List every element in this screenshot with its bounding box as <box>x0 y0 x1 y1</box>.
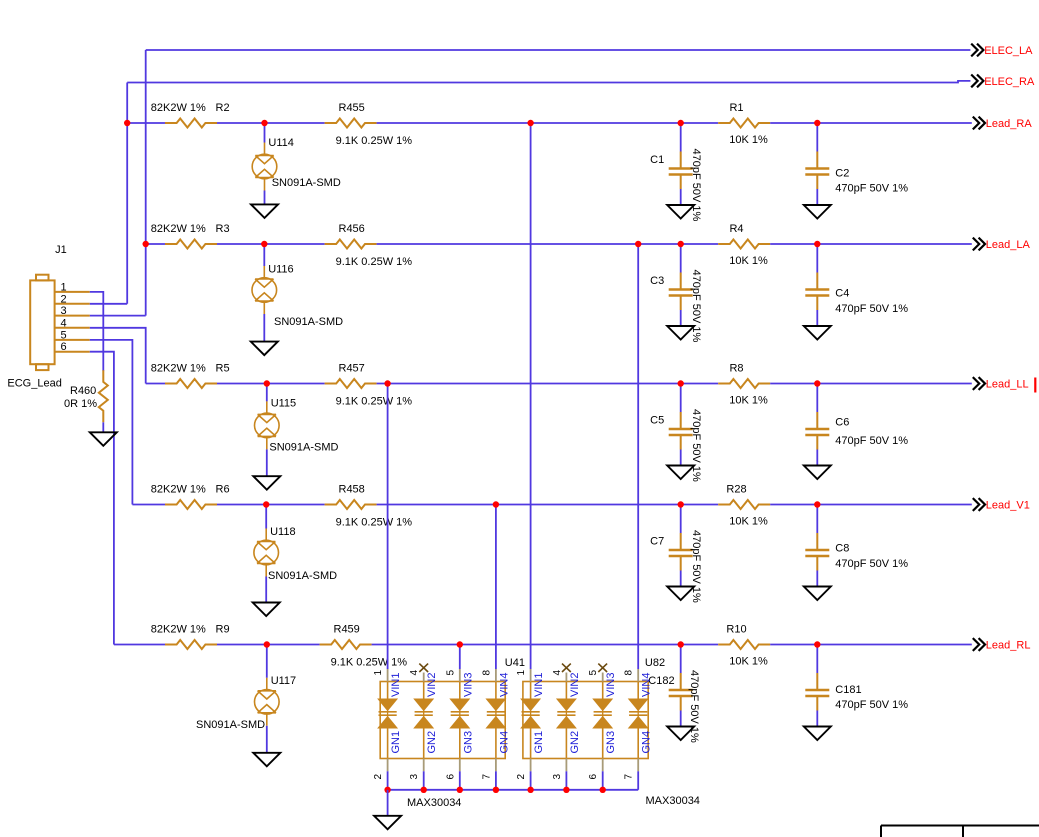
wire C1 branch upper <box>680 123 682 152</box>
TVS diode pair U82 channel 1 <box>522 699 540 728</box>
capacitor C6 470pF 50V 1% <box>805 412 829 450</box>
svg-text:R456: R456 <box>339 223 365 235</box>
U41 pin 8 internal lead <box>495 682 497 700</box>
svg-text:1: 1 <box>516 670 527 676</box>
svg-text:VIN2: VIN2 <box>569 673 581 697</box>
svg-text:R9: R9 <box>216 624 230 636</box>
U82 pin 5 internal lead <box>602 682 604 700</box>
wire C6 branch lower <box>816 450 818 466</box>
junction row 1 at x=127.2 <box>124 120 130 126</box>
wire C7 branch lower <box>680 571 682 587</box>
ground below R460 <box>90 432 117 446</box>
svg-text:5: 5 <box>61 329 67 341</box>
wire TVS ground rail <box>388 789 639 791</box>
U41 pin 2 stub <box>387 759 389 772</box>
wire row Lead_LA segment 2 <box>217 243 325 245</box>
svg-text:3: 3 <box>61 305 67 317</box>
U82 pin 4 internal lead <box>565 682 567 700</box>
svg-text:82K2W 1%: 82K2W 1% <box>151 624 206 636</box>
red net stub at right edge of Lead_LL <box>1034 378 1036 393</box>
wire ground rail to ground symbol <box>387 790 389 816</box>
svg-text:R460: R460 <box>70 385 96 397</box>
wire row Lead_RA segment 4 <box>770 122 972 124</box>
resistor R28 10K 1% <box>718 500 770 509</box>
wire bus ELEC_RA to J1 pin 2 <box>126 83 128 304</box>
wire R460 to ground <box>102 422 104 432</box>
junction ground rail at x=566.4 <box>563 787 569 793</box>
IC U41 MAX30034 body <box>380 682 505 759</box>
junction ground rail at x=387.6 <box>384 787 390 793</box>
connector J1 body <box>30 275 54 370</box>
svg-text:9.1K 0.25W 1%: 9.1K 0.25W 1% <box>331 657 408 669</box>
resistor R2 82K2W 1% <box>165 119 217 128</box>
wire net ELEC_LA horizontal <box>146 49 971 51</box>
port ELEC_LA <box>971 44 1033 58</box>
wire C7 branch upper <box>680 505 682 534</box>
U41 pin 1 internal lead <box>387 682 389 700</box>
svg-text:R457: R457 <box>339 363 365 375</box>
junction row 3 at x=387.6 <box>384 380 390 386</box>
svg-text:SN091A-SMD: SN091A-SMD <box>196 719 265 731</box>
svg-text:GN2: GN2 <box>569 731 581 754</box>
wire C4 branch lower <box>816 310 818 326</box>
wire row Lead_LL segment 3 <box>377 383 719 385</box>
no-connect X on U82 pin 4 <box>562 664 571 672</box>
capacitor C2 470pF 50V 1% <box>805 152 829 190</box>
port Lead_LA <box>973 238 1031 252</box>
resistor R460 0R 1% <box>99 370 108 422</box>
U82 pin 1 stub <box>530 669 532 682</box>
wire J1 pin 3 to ELEC_LA bus <box>90 315 146 317</box>
svg-text:R6: R6 <box>216 484 230 496</box>
junction row 5 at x=459.8 <box>457 641 463 647</box>
U41 pin 3 stub <box>423 759 425 772</box>
junction ground rail at x=602.7 <box>600 787 606 793</box>
svg-text:4: 4 <box>552 670 563 676</box>
svg-text:ELEC_LA: ELEC_LA <box>984 45 1033 57</box>
resistor R4 10K 1% <box>718 240 770 249</box>
wire J1 pin 6 down to Lead_RL row <box>90 352 114 645</box>
wire C3 branch upper <box>680 244 682 273</box>
junction ground rail at x=423.7 <box>421 787 427 793</box>
wire C5 branch upper <box>680 384 682 413</box>
svg-text:C8: C8 <box>835 543 849 555</box>
ground below C182 <box>667 727 694 741</box>
junction row 2 at x=638.2 <box>635 241 641 247</box>
svg-text:82K2W 1%: 82K2W 1% <box>151 363 206 375</box>
TVS diode pair U82 channel 2 <box>557 699 575 728</box>
junction row 4 at x=817.3 <box>814 501 820 507</box>
ground below U114 <box>251 204 278 218</box>
wire U118 to ground <box>265 577 267 603</box>
wire C3 branch lower <box>680 310 682 326</box>
svg-text:8: 8 <box>624 670 635 676</box>
svg-text:GN4: GN4 <box>498 731 510 754</box>
capacitor C8 470pF 50V 1% <box>805 533 829 571</box>
wire row Lead_V1 segment 2 <box>217 504 325 506</box>
svg-text:U41: U41 <box>505 657 525 669</box>
svg-text:10K 1%: 10K 1% <box>729 395 768 407</box>
svg-text:U115: U115 <box>271 398 296 410</box>
svg-text:82K2W 1%: 82K2W 1% <box>151 102 206 114</box>
svg-text:Lead_LA: Lead_LA <box>986 239 1031 251</box>
wire U82 pin 6 to ground rail <box>602 771 604 790</box>
svg-text:Lead_V1: Lead_V1 <box>986 500 1030 512</box>
TVS diode pair U41 channel 4 <box>487 699 505 728</box>
port Lead_V1 <box>973 498 1030 512</box>
ground below C7 <box>667 587 694 601</box>
U41 channel 4 internal lead lower <box>495 728 497 759</box>
junction row 2 at x=680.7 <box>678 241 684 247</box>
ground below C1 <box>667 205 694 219</box>
svg-text:2: 2 <box>61 293 67 305</box>
wire row Lead_LL segment 1 <box>146 383 166 385</box>
svg-text:470pF 50V 1%: 470pF 50V 1% <box>835 303 908 315</box>
U82 pin 6 stub <box>602 759 604 772</box>
svg-text:GN2: GN2 <box>426 731 438 754</box>
U82 channel 4 internal lead lower <box>637 728 639 759</box>
ground below C8 <box>804 587 831 601</box>
svg-text:5: 5 <box>588 670 599 676</box>
U41 channel 1 internal lead lower <box>387 728 389 759</box>
svg-text:VIN1: VIN1 <box>533 673 545 697</box>
junction row 5 at x=266.8 <box>264 641 270 647</box>
svg-text:5: 5 <box>445 670 456 676</box>
U82 pin 2 stub <box>530 759 532 772</box>
resistor R459 9.1K 0.25W 1% <box>320 640 372 649</box>
wire U115 branch from row junction <box>266 384 268 402</box>
svg-text:MAX30034: MAX30034 <box>646 795 700 807</box>
wire row Lead_RA segment 3 <box>377 122 719 124</box>
no-connect X on U41 pin 4 <box>419 664 428 672</box>
U41 pin 4 internal lead <box>423 682 425 700</box>
resistor R455 9.1K 0.25W 1% <box>325 119 377 128</box>
U41 pin 6 stub <box>459 759 461 772</box>
resistor R456 9.1K 0.25W 1% <box>325 240 377 249</box>
J1 pin 6 lead <box>55 351 90 353</box>
wire bus Lead_RA to U82 pin 1 <box>530 123 532 669</box>
wire U82 pin 7 to ground rail <box>637 771 639 790</box>
junction row 5 at x=680.7 <box>678 641 684 647</box>
U82 pin 4 stub <box>565 673 567 682</box>
wire bus Lead_V1 to U41 pin 8 <box>495 505 497 670</box>
wire C2 branch upper <box>816 123 818 152</box>
svg-text:U82: U82 <box>645 657 665 669</box>
svg-text:GN1: GN1 <box>390 731 402 754</box>
port ELEC_RA <box>971 75 1035 89</box>
svg-text:C5: C5 <box>650 415 664 427</box>
svg-text:C6: C6 <box>835 417 849 429</box>
svg-text:ELEC_RA: ELEC_RA <box>984 76 1035 88</box>
wire U82 pin 3 to ground rail <box>565 771 567 790</box>
U41 pin 4 stub <box>423 673 425 682</box>
wire U41 pin 7 to ground rail <box>495 771 497 790</box>
junction row 2 at x=145.7 <box>143 241 149 247</box>
svg-text:VIN4: VIN4 <box>641 673 653 697</box>
svg-text:470pF 50V 1%: 470pF 50V 1% <box>835 183 908 195</box>
svg-text:J1: J1 <box>55 244 67 256</box>
svg-text:SN091A-SMD: SN091A-SMD <box>272 177 341 189</box>
surge arrester U115 (SN091A-SMD) <box>254 401 279 449</box>
wire U118 branch from row junction <box>265 505 267 529</box>
capacitor C4 470pF 50V 1% <box>805 273 829 311</box>
wire U41 pin 6 to ground rail <box>459 771 461 790</box>
resistor R10 10K 1% <box>718 640 770 649</box>
wire U41 pin 3 to ground rail <box>423 771 425 790</box>
svg-text:10K 1%: 10K 1% <box>729 516 768 528</box>
svg-text:470pF 50V 1%: 470pF 50V 1% <box>690 270 702 343</box>
svg-text:C7: C7 <box>650 536 664 548</box>
wire C181 branch lower <box>816 711 818 727</box>
svg-text:2: 2 <box>516 774 527 780</box>
wire C182 branch upper <box>680 645 682 674</box>
junction row 5 at x=817.3 <box>814 641 820 647</box>
wire row Lead_RA segment 2 <box>217 122 325 124</box>
capacitor C3 470pF 50V 1% <box>669 273 693 311</box>
junction row 1 at x=530.6 <box>527 120 533 126</box>
wire row Lead_LA segment 4 <box>770 243 972 245</box>
svg-text:470pF 50V 1%: 470pF 50V 1% <box>835 435 908 447</box>
J1 pin 1 lead <box>55 291 90 293</box>
resistor R3 82K2W 1% <box>165 240 217 249</box>
svg-text:GN1: GN1 <box>533 731 545 754</box>
wire row Lead_V1 segment 4 <box>770 504 972 506</box>
svg-text:6: 6 <box>445 774 456 780</box>
ground below C5 <box>667 466 694 480</box>
U82 pin 7 stub <box>637 759 639 772</box>
svg-text:GN4: GN4 <box>641 731 653 754</box>
TVS diode pair U41 channel 3 <box>451 699 469 728</box>
svg-text:6: 6 <box>588 774 599 780</box>
svg-text:470pF 50V 1%: 470pF 50V 1% <box>690 149 702 222</box>
svg-text:3: 3 <box>409 774 420 780</box>
ground below C4 <box>804 326 831 340</box>
svg-text:7: 7 <box>624 774 635 780</box>
svg-text:470pF 50V 1%: 470pF 50V 1% <box>835 558 908 570</box>
wire U115 to ground <box>266 449 268 476</box>
ground below TVS rail <box>374 816 401 830</box>
wire net ELEC_RA horizontal with jog <box>127 81 970 83</box>
wire row Lead_LA segment 3 <box>377 243 719 245</box>
J1 pin 2 lead <box>55 303 90 305</box>
wire J1 pin 2 to ELEC_RA bus <box>90 303 127 305</box>
port Lead_RL <box>973 638 1031 652</box>
svg-text:SN091A-SMD: SN091A-SMD <box>274 316 343 328</box>
capacitor C5 470pF 50V 1% <box>669 412 693 450</box>
svg-text:R458: R458 <box>339 484 365 496</box>
svg-text:R455: R455 <box>339 102 365 114</box>
wire C8 branch lower <box>816 571 818 587</box>
svg-text:82K2W 1%: 82K2W 1% <box>151 223 206 235</box>
wire U116 to ground <box>263 314 265 342</box>
surge arrester U116 (SN091A-SMD) <box>252 266 277 314</box>
svg-text:U117: U117 <box>271 675 296 687</box>
svg-text:82K2W 1%: 82K2W 1% <box>151 484 206 496</box>
wire row Lead_RL segment 4 <box>770 644 972 646</box>
svg-text:3: 3 <box>552 774 563 780</box>
junction row 2 at x=817.3 <box>814 241 820 247</box>
U41 pin 5 internal lead <box>459 682 461 700</box>
svg-text:R3: R3 <box>216 223 230 235</box>
svg-text:9.1K 0.25W 1%: 9.1K 0.25W 1% <box>336 256 413 268</box>
junction row 4 at x=495.9 <box>493 501 499 507</box>
svg-text:MAX30034: MAX30034 <box>407 797 461 809</box>
svg-text:4: 4 <box>61 317 67 329</box>
surge arrester U117 (SN091A-SMD) <box>254 678 279 726</box>
U41 channel 3 internal lead lower <box>459 728 461 759</box>
capacitor C181 470pF 50V 1% <box>805 673 829 711</box>
wire C1 branch lower <box>680 189 682 205</box>
svg-text:4: 4 <box>409 670 420 676</box>
ground below C6 <box>804 466 831 480</box>
U41 pin 8 stub <box>495 669 497 682</box>
wire row Lead_LA segment 1 <box>146 243 166 245</box>
ground below U116 <box>251 342 278 356</box>
wire bus Lead_RL to U41 pin 5 <box>459 645 461 670</box>
resistor R457 9.1K 0.25W 1% <box>325 379 377 388</box>
wire row Lead_LL segment 2 <box>217 383 325 385</box>
port Lead_LL <box>973 377 1029 391</box>
no-connect X on U82 pin 5 <box>598 664 607 672</box>
svg-text:Lead_LL: Lead_LL <box>986 379 1029 391</box>
TVS diode pair U82 channel 4 <box>629 699 647 728</box>
capacitor C7 470pF 50V 1% <box>669 533 693 571</box>
wire bus Lead_LL to U41 pin 1 <box>387 384 389 670</box>
svg-text:VIN4: VIN4 <box>498 673 510 697</box>
surge arrester U114 (SN091A-SMD) <box>252 143 277 191</box>
wire C182 branch lower <box>680 711 682 727</box>
svg-text:R4: R4 <box>729 223 743 235</box>
svg-text:Lead_RL: Lead_RL <box>986 640 1031 652</box>
svg-text:VIN2: VIN2 <box>426 673 438 697</box>
U41 pin 7 stub <box>495 759 497 772</box>
capacitor C1 470pF 50V 1% <box>669 152 693 190</box>
wire bus ELEC_LA to J1 pin 3 <box>145 50 147 316</box>
svg-text:SN091A-SMD: SN091A-SMD <box>269 442 338 454</box>
junction ground rail at x=495.9 <box>493 787 499 793</box>
svg-text:GN3: GN3 <box>462 731 474 754</box>
U41 pin 1 stub <box>387 669 389 682</box>
svg-text:C4: C4 <box>835 288 849 300</box>
ground below U117 <box>253 753 280 767</box>
wire U82 pin 2 to ground rail <box>530 771 532 790</box>
wire J1 pin 5 down to Lead_V1 row <box>90 340 133 505</box>
svg-text:10K 1%: 10K 1% <box>729 134 768 146</box>
wire J1 pin 1 to R460 <box>90 292 104 371</box>
svg-text:10K 1%: 10K 1% <box>729 255 768 267</box>
wire row Lead_RL segment 2 <box>217 644 320 646</box>
svg-text:6: 6 <box>61 341 67 353</box>
TVS diode pair U41 channel 1 <box>379 699 397 728</box>
junction row 1 at x=680.7 <box>678 120 684 126</box>
svg-text:R28: R28 <box>726 484 746 496</box>
title block frame lines <box>881 826 1039 837</box>
resistor R458 9.1K 0.25W 1% <box>325 500 377 509</box>
svg-text:R10: R10 <box>726 624 746 636</box>
svg-text:8: 8 <box>481 670 492 676</box>
wire U114 branch from row junction <box>264 123 266 143</box>
wire C2 branch lower <box>816 189 818 205</box>
svg-text:R1: R1 <box>729 102 743 114</box>
svg-text:9.1K 0.25W 1%: 9.1K 0.25W 1% <box>336 135 413 147</box>
U41 channel 2 internal lead lower <box>423 728 425 759</box>
svg-text:ECG_Lead: ECG_Lead <box>7 378 61 390</box>
wire U41 pin 2 to ground rail <box>387 771 389 790</box>
svg-text:470pF 50V 1%: 470pF 50V 1% <box>690 409 702 482</box>
resistor R5 82K2W 1% <box>165 379 217 388</box>
wire U114 to ground <box>264 191 266 205</box>
wire row Lead_RL segment 1 <box>114 644 165 646</box>
resistor R6 82K2W 1% <box>165 500 217 509</box>
wire row Lead_LL segment 4 <box>770 383 972 385</box>
svg-text:GN3: GN3 <box>605 731 617 754</box>
junction row 3 at x=817.3 <box>814 380 820 386</box>
junction row 4 at x=266.2 <box>263 501 269 507</box>
svg-text:R5: R5 <box>216 363 230 375</box>
svg-text:R2: R2 <box>216 102 230 114</box>
wire row Lead_V1 segment 1 <box>132 504 165 506</box>
J1 pin 5 lead <box>55 339 90 341</box>
svg-text:U118: U118 <box>270 526 295 538</box>
svg-text:C3: C3 <box>650 275 664 287</box>
svg-text:470pF 50V 1%: 470pF 50V 1% <box>688 670 700 743</box>
wire J1 pin 4 down to Lead_LL row <box>90 328 146 384</box>
surge arrester U118 (SN091A-SMD) <box>254 529 279 577</box>
svg-text:R8: R8 <box>729 363 743 375</box>
svg-text:1: 1 <box>61 281 67 293</box>
wire bus Lead_LA to U82 pin 8 <box>637 244 639 669</box>
U41 pin 5 stub <box>459 669 461 682</box>
svg-text:VIN3: VIN3 <box>605 673 617 697</box>
svg-text:7: 7 <box>481 774 492 780</box>
wire C6 branch upper <box>816 384 818 413</box>
ground below C3 <box>667 326 694 340</box>
U82 pin 8 stub <box>637 669 639 682</box>
resistor R1 10K 1% <box>718 119 770 128</box>
U82 channel 1 internal lead lower <box>530 728 532 759</box>
port Lead_RA <box>973 117 1033 131</box>
U82 channel 2 internal lead lower <box>565 728 567 759</box>
ground below C2 <box>804 205 831 219</box>
IC U82 MAX30034 body <box>523 682 648 759</box>
ground below C181 <box>804 727 831 741</box>
junction row 1 at x=817.3 <box>814 120 820 126</box>
wire C8 branch upper <box>816 505 818 534</box>
U82 pin 3 stub <box>565 759 567 772</box>
svg-text:10K 1%: 10K 1% <box>729 656 768 668</box>
junction row 3 at x=266.8 <box>264 380 270 386</box>
svg-text:470pF 50V 1%: 470pF 50V 1% <box>690 530 702 603</box>
ground below U118 <box>253 603 280 617</box>
U82 pin 8 internal lead <box>637 682 639 700</box>
wire C4 branch upper <box>816 244 818 273</box>
junction row 3 at x=680.7 <box>678 380 684 386</box>
wire row Lead_RL segment 3 <box>372 644 719 646</box>
junction ground rail at x=530.6 <box>527 787 533 793</box>
svg-text:9.1K 0.25W 1%: 9.1K 0.25W 1% <box>336 396 413 408</box>
svg-text:C181: C181 <box>835 684 861 696</box>
wire row Lead_V1 segment 3 <box>377 504 719 506</box>
U82 pin 1 internal lead <box>530 682 532 700</box>
J1 pin 4 lead <box>55 327 90 329</box>
svg-text:1: 1 <box>373 670 384 676</box>
wire U117 branch from row junction <box>266 645 268 678</box>
TVS diode pair U82 channel 3 <box>594 699 612 728</box>
junction row 1 at x=264.5 <box>261 120 267 126</box>
wire C181 branch upper <box>816 645 818 674</box>
ground below U115 <box>253 476 280 490</box>
wire U116 branch from row junction <box>263 244 265 266</box>
